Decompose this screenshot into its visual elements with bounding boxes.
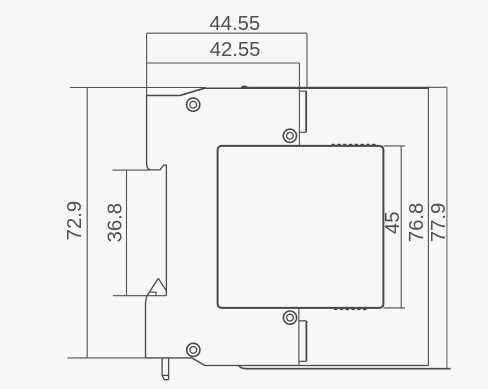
svg-text:76.8: 76.8 [406,203,428,242]
top extension line left (72.9) [70,87,206,89]
extension / clip base line 36.8 [113,295,166,297]
body bottom edge left [146,358,205,366]
dimension 44.55 line [147,33,307,95]
svg-text:72.9: 72.9 [64,201,86,240]
screw circle bottom-left [187,343,200,356]
top mounting tab [299,91,306,132]
bottom mounting tab [298,308,300,366]
body lower lip line [239,366,451,369]
screw circle top-left [187,98,200,111]
body top edge [204,87,428,89]
top extension line right (77.9) [249,86,448,88]
din rail foot [162,358,169,380]
screw circle bottom-right [283,311,296,324]
top edge hump [240,86,249,89]
clip inner step [150,292,156,296]
svg-text:36.8: 36.8 [105,203,127,242]
dimension 77.9 line [446,87,448,369]
din clip triangle [146,278,167,358]
dimension 36.8 line [112,170,150,296]
svg-text:42.55: 42.55 [210,39,261,61]
screw circle top-right [283,129,296,142]
dimension 42.55 line [147,63,300,146]
svg-text:45: 45 [382,212,404,235]
svg-text:77.9: 77.9 [428,203,450,242]
dimension 45 line [383,146,405,308]
front block rounded rect [218,146,384,308]
vent serration top [332,144,376,146]
body top-left step edge [147,88,204,95]
dimension 76.8 line [427,87,429,366]
vent serration bottom [334,308,366,310]
dimension 72.9 line [86,87,88,358]
bottom extension 72.9 [67,357,146,359]
body rear face upper [147,96,167,296]
body bottom edge [205,365,428,367]
svg-text:44.55: 44.55 [209,13,260,35]
